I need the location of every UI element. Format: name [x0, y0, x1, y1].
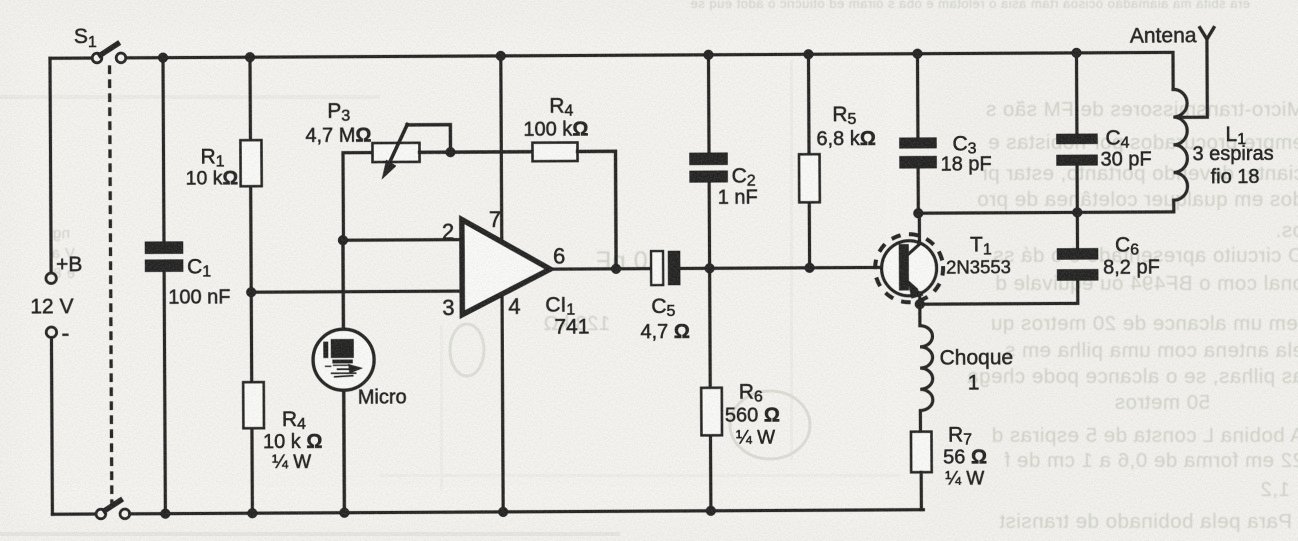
wire: op-amp pin 3 net — [251, 291, 462, 292]
resistor R5 — [799, 154, 820, 202]
potentiometer P3 — [372, 143, 419, 162]
capacitor C5 (electrolytic) — [651, 251, 663, 285]
wire: op-amp pin 7 supply — [499, 56, 503, 242]
capacitor C1 — [145, 242, 183, 254]
resistor R4 (10k) — [243, 382, 264, 428]
switch S1 (lower pole) — [96, 509, 106, 519]
capacitor C4 branch wire — [1076, 53, 1077, 248]
junction node dots — [158, 48, 1084, 519]
wire: op-amp output to C5 — [550, 267, 651, 271]
capacitor C1 branch wire — [163, 58, 165, 514]
wire: P3 wiper link — [407, 125, 451, 149]
wire: microphone branch — [343, 240, 344, 512]
wire: op-amp pin 4 to ground rail — [502, 294, 503, 512]
resistor R1 branch wire — [250, 57, 252, 513]
wire: P3 right terminal to R4 — [419, 150, 532, 154]
antenna symbol — [1200, 28, 1214, 40]
wire: feedback from R4 down to output node — [577, 151, 616, 269]
wire: antenna tap from L1 — [1178, 39, 1207, 117]
terminal - (negative) — [46, 327, 56, 337]
resistor R1 — [240, 140, 261, 186]
ghost stamp circles — [730, 391, 810, 459]
switch S1 (upper pole) — [92, 53, 102, 63]
capacitor C4 — [1056, 134, 1097, 144]
wire: emitter rail to C6 — [920, 280, 1078, 304]
capacitor C3 branch wire — [916, 54, 920, 213]
wire: top supply rail — [50, 56, 92, 59]
wire: bottom ground rail — [52, 512, 96, 515]
wire: collector rail to L1 — [918, 200, 1174, 213]
wire: C5 to transistor base — [680, 267, 899, 268]
capacitor C2 branch wire — [708, 55, 710, 511]
inductor L1 coil — [1173, 89, 1187, 200]
microphone Micro — [313, 329, 374, 390]
wire: P3 left terminal to pin2 node — [343, 153, 373, 241]
wire: left rail — [50, 58, 51, 272]
capacitor C2 — [690, 153, 728, 165]
transistor T1 2N3553 — [875, 234, 943, 302]
resistor R4 (100k) — [532, 143, 577, 162]
wire: op-amp pin 2 net — [343, 238, 462, 242]
choke Choque 1 coil — [920, 304, 933, 432]
resistor R6 — [701, 388, 722, 436]
terminal +B — [46, 273, 56, 283]
dashed mechanical link of S1 — [110, 67, 112, 506]
capacitor C6 — [1057, 248, 1098, 259]
resistor R5 branch wire — [808, 54, 809, 267]
capacitor C3 — [899, 138, 936, 149]
resistor R7 — [911, 432, 932, 473]
op-amp CI1 741 — [462, 219, 550, 314]
